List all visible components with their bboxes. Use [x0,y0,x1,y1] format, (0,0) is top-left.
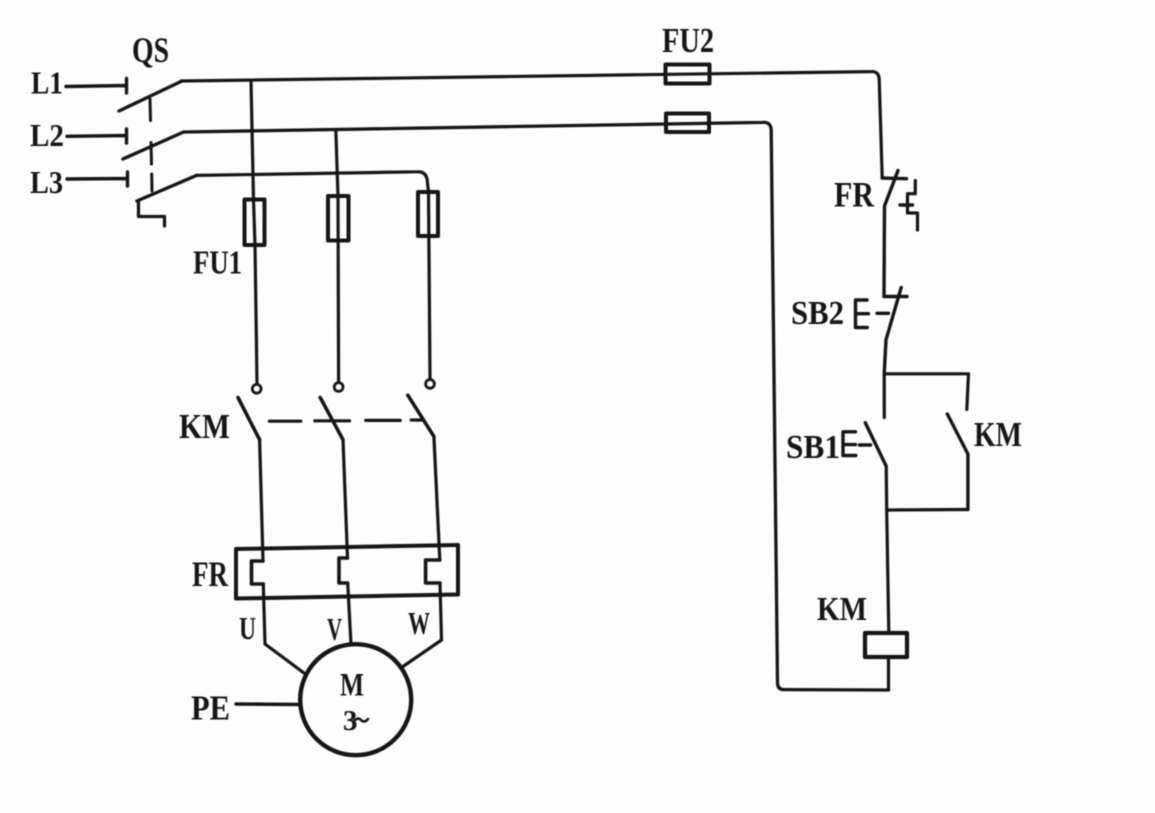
wire coil to bottom [887,657,890,690]
wire pole3 to motor W [403,583,442,667]
relay FR heater pole2 [339,558,348,583]
relay FR box [236,545,458,599]
contactor KM aux blade [947,414,968,510]
wire KM pole3 to FR [434,436,440,560]
wire L3 bus [197,172,429,192]
wire L1 lead [66,79,127,94]
svg-text:L3: L3 [30,164,63,200]
svg-text:FR: FR [192,554,229,594]
svg-text:L2: L2 [30,117,64,153]
svg-text:W: W [408,605,430,641]
svg-text:SB1: SB1 [786,429,840,466]
svg-text:QS: QS [132,30,169,70]
svg-text:V: V [327,611,342,647]
relay FR contact fixed bar [882,176,907,180]
svg-text:FU2: FU2 [662,21,714,60]
switch QS handle bracket [139,202,165,226]
svg-text:U: U [239,610,256,646]
switch QS link dashed [150,99,152,191]
fuse FU2 bottom [666,114,709,133]
svg-text:L1: L1 [31,65,63,101]
contactor KM coil [865,633,907,657]
fuse FU1 pole2 [328,196,349,241]
relay FR heater pole3 [426,560,440,583]
relay FR trip bracket [908,181,918,231]
button SB2 blade [884,288,901,374]
svg-text:SB2: SB2 [791,295,844,332]
svg-text:KM: KM [179,407,230,446]
contactor KM main pole1 terminal [252,384,261,393]
contactor KM main pole2 terminal [334,383,343,392]
contactor KM main pole2 blade [320,398,343,440]
wire PE lead [236,702,301,706]
fuse FU1 pole1 [245,200,265,246]
wire branch junction [884,374,968,410]
wire pole1 to motor U [263,584,306,675]
svg-text:KM: KM [817,591,867,628]
wire drop to FU1 pole3 [429,192,431,379]
relay FR heater pole1 [252,561,264,584]
relay FR contact blade [884,171,898,296]
svg-text:M: M [340,668,364,704]
wire pole2 to motor V [348,583,351,644]
wire aux bottom [887,508,968,512]
wire KM pole2 to FR [343,440,348,558]
contactor KM main link dashed [269,420,422,421]
svg-text:FR: FR [834,175,875,215]
contactor KM main pole3 terminal [426,380,435,389]
wire L1 bus and control right drop [181,72,882,178]
wire L2 bus, control left vertical and bottom [184,122,889,690]
fuse FU1 pole3 [418,192,438,236]
fuse FU2 top [666,65,710,84]
button SB2 actuator [856,300,889,328]
wire L3 lead [67,172,128,186]
switch QS pole2 blade [123,132,184,159]
button SB1 actuator [843,432,871,456]
button SB1 blade [865,423,886,466]
contactor KM main pole1 blade [238,398,260,440]
svg-text:KM: KM [974,415,1022,454]
switch QS pole3 blade [137,175,197,201]
relay FR contact bar2 [900,203,913,206]
contactor KM main pole3 blade [408,395,434,436]
wire drop to FU1 pole1 [251,80,257,384]
svg-text:FU1: FU1 [193,245,242,282]
wire L2 lead [67,129,127,143]
motor M circle [300,644,411,755]
wire drop to FU1 pole2 [336,130,339,382]
wire SB2 to SB1 [883,374,886,418]
wire SB1 to coil [886,466,889,633]
wire KM pole1 to FR [260,440,263,561]
switch QS pole1 blade [119,81,182,111]
button SB2 fixed bar [884,295,907,298]
svg-text:PE: PE [191,689,230,728]
